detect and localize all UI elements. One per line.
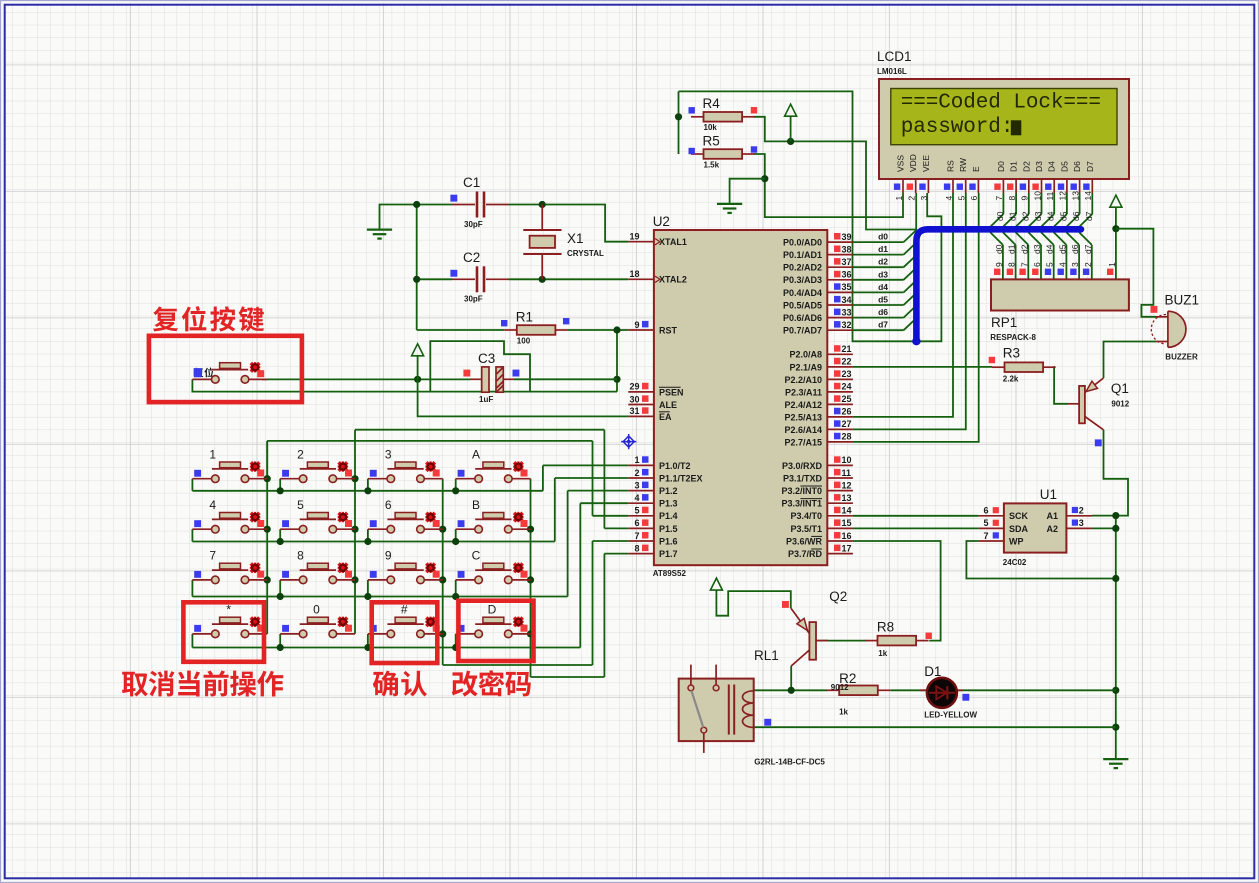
wire keypad column 1 net to P1.4 xyxy=(264,441,629,634)
wire +5V to BUZ1 top xyxy=(1116,229,1156,317)
svg-text:SDA: SDA xyxy=(1009,524,1029,534)
svg-text:RESPACK-8: RESPACK-8 xyxy=(990,333,1036,342)
svg-text:P1.6: P1.6 xyxy=(659,536,678,546)
resistor R2 xyxy=(827,671,891,717)
svg-text:9012: 9012 xyxy=(831,683,849,692)
svg-text:R1: R1 xyxy=(516,309,533,324)
power +5V terminal near R4 xyxy=(785,104,797,141)
svg-text:5: 5 xyxy=(957,196,967,201)
svg-text:9: 9 xyxy=(385,549,392,563)
svg-text:23: 23 xyxy=(842,369,852,379)
svg-text:100: 100 xyxy=(517,336,531,345)
svg-text:A: A xyxy=(472,447,480,461)
svg-text:D6: D6 xyxy=(1072,161,1082,172)
svg-text:D1: D1 xyxy=(1009,161,1019,172)
push button key 0 xyxy=(280,603,355,638)
svg-text:SCK: SCK xyxy=(1009,511,1029,521)
svg-text:P0.0/AD0: P0.0/AD0 xyxy=(783,238,822,248)
svg-text:P0.5/AD5: P0.5/AD5 xyxy=(783,300,822,310)
svg-text:P1.4: P1.4 xyxy=(659,511,678,521)
svg-text:P1.5: P1.5 xyxy=(659,524,678,534)
svg-text:RW: RW xyxy=(958,158,968,172)
wire reset button left terminal long run xyxy=(192,379,617,391)
svg-text:9: 9 xyxy=(994,262,1004,267)
svg-text:12: 12 xyxy=(842,480,852,490)
svg-text:14: 14 xyxy=(842,506,852,516)
capacitor C2 30pF xyxy=(450,250,508,304)
wire RST net vertical to C3 xyxy=(613,326,620,391)
svg-text:#: # xyxy=(401,603,408,617)
svg-text:d0: d0 xyxy=(995,211,1005,221)
crystal X1 xyxy=(523,205,604,280)
svg-text:36: 36 xyxy=(842,270,852,280)
svg-text:2: 2 xyxy=(634,468,639,478)
wire P2.6 to LCD RW xyxy=(853,193,966,429)
annotation box key * xyxy=(183,602,264,662)
RP1 pin numbers 9..2 and 1 xyxy=(994,262,1117,267)
svg-text:1k: 1k xyxy=(839,708,848,717)
ground symbol near C1 xyxy=(367,230,392,239)
push button key 6 xyxy=(368,498,443,533)
annotation text 复位按键 xyxy=(153,306,264,332)
annotation box key # xyxy=(372,602,438,663)
svg-text:d4: d4 xyxy=(1045,244,1055,254)
svg-text:2: 2 xyxy=(1083,262,1093,267)
wire R5 right to GND / LCD VSS xyxy=(754,154,903,217)
resistor R8 xyxy=(865,620,932,659)
svg-text:7: 7 xyxy=(209,549,216,563)
wire loop detour over C3 xyxy=(430,341,530,392)
svg-text:d2: d2 xyxy=(1019,244,1029,254)
svg-text:d3: d3 xyxy=(878,269,888,279)
net labels d0-d7 above bus xyxy=(995,211,1094,221)
wire P2.5 to LCD RS xyxy=(853,193,953,417)
svg-text:D3: D3 xyxy=(1034,161,1044,172)
svg-text:d3: d3 xyxy=(1032,244,1042,254)
svg-text:P2.0/A8: P2.0/A8 xyxy=(789,350,822,360)
svg-text:d0: d0 xyxy=(994,244,1004,254)
svg-text:16: 16 xyxy=(842,531,852,541)
svg-text:d1: d1 xyxy=(1008,211,1018,221)
annotation box reset button xyxy=(149,336,302,402)
svg-text:d5: d5 xyxy=(1057,244,1067,254)
svg-text:P2.3/A11: P2.3/A11 xyxy=(785,387,822,397)
LED D1 LED-YELLOW xyxy=(920,664,978,720)
svg-text:P0.3/AD3: P0.3/AD3 xyxy=(783,275,822,285)
svg-text:d0: d0 xyxy=(878,232,888,242)
svg-text:3: 3 xyxy=(1079,518,1084,528)
svg-text:P0.2/AD2: P0.2/AD2 xyxy=(783,263,822,273)
svg-text:d1: d1 xyxy=(1007,244,1017,254)
svg-text:21: 21 xyxy=(842,344,852,354)
svg-text:3: 3 xyxy=(385,447,392,461)
push button key # xyxy=(368,603,443,638)
svg-text:P1.2: P1.2 xyxy=(659,486,678,496)
svg-text:P3.3/INT1: P3.3/INT1 xyxy=(781,499,822,509)
svg-text:BUZ1: BUZ1 xyxy=(1165,293,1200,308)
svg-text:8: 8 xyxy=(1007,196,1017,201)
ground symbol below R5 xyxy=(717,204,742,213)
power +5V terminal above C3 xyxy=(412,344,424,380)
wire Q1 collector to ground rail xyxy=(1092,430,1128,516)
svg-text:D2: D2 xyxy=(1021,161,1031,172)
svg-text:d4: d4 xyxy=(878,282,888,292)
svg-text:38: 38 xyxy=(842,244,852,254)
wire P2.1 to R3 xyxy=(853,366,992,368)
svg-text:P2.6/A14: P2.6/A14 xyxy=(784,425,822,435)
wires bus to RP1 pins xyxy=(990,232,1092,278)
svg-text:7: 7 xyxy=(983,531,988,541)
net labels d0-d7 below bus xyxy=(994,244,1093,254)
svg-text:d5: d5 xyxy=(878,295,888,305)
wire P3.4 to U1 SCK xyxy=(853,515,979,517)
ground rail right side xyxy=(1112,512,1119,759)
svg-text:Q1: Q1 xyxy=(1111,381,1129,396)
wires keypad left terminal drops xyxy=(192,479,459,651)
annotation text 改密码 xyxy=(452,670,531,696)
svg-text:10: 10 xyxy=(842,455,852,465)
svg-text:D4: D4 xyxy=(1047,161,1057,172)
svg-text:15: 15 xyxy=(842,518,852,528)
svg-text:XTAL1: XTAL1 xyxy=(659,237,687,247)
svg-text:D1: D1 xyxy=(924,664,941,679)
svg-text:P2.5/A13: P2.5/A13 xyxy=(784,412,822,422)
svg-text:R4: R4 xyxy=(703,96,721,111)
svg-text:D: D xyxy=(488,603,497,617)
svg-text:31: 31 xyxy=(629,406,639,416)
LCD display LCD1 LM016L xyxy=(877,49,1129,201)
eeprom U1 24C02 xyxy=(979,487,1092,567)
push button reset (复位) xyxy=(192,362,267,383)
push button key B xyxy=(456,498,531,533)
svg-text:6: 6 xyxy=(1032,262,1042,267)
junction dots crystal nets xyxy=(413,201,546,283)
wire Q2 base to R8 xyxy=(817,640,866,642)
push button key 3 xyxy=(368,447,443,482)
push button key 5 xyxy=(280,498,355,533)
svg-text:5: 5 xyxy=(983,518,988,528)
push button key D xyxy=(456,603,531,638)
svg-text:4: 4 xyxy=(209,498,216,512)
svg-text:5: 5 xyxy=(634,506,639,516)
svg-text:39: 39 xyxy=(842,232,852,242)
svg-text:9: 9 xyxy=(1020,196,1030,201)
resistor R5 xyxy=(689,133,758,169)
svg-text:9: 9 xyxy=(634,320,639,330)
svg-text:8: 8 xyxy=(1007,262,1017,267)
svg-text:30pF: 30pF xyxy=(464,220,483,229)
svg-text:A1: A1 xyxy=(1046,511,1058,521)
svg-text:VSS: VSS xyxy=(896,155,906,172)
svg-text:P0.4/AD4: P0.4/AD4 xyxy=(783,288,822,298)
wire relay coil bottom to ground rail xyxy=(754,719,1116,727)
svg-text:PSEN: PSEN xyxy=(659,387,684,397)
wire R4 R5 left junction / VEE long net xyxy=(675,91,942,341)
svg-text:E: E xyxy=(971,166,981,172)
wire R2 to D1 xyxy=(890,689,927,691)
svg-text:U1: U1 xyxy=(1040,487,1057,502)
push button key A xyxy=(456,447,531,482)
svg-text:35: 35 xyxy=(842,282,852,292)
svg-text:Q2: Q2 xyxy=(829,589,847,604)
svg-text:d6: d6 xyxy=(1071,211,1081,221)
svg-text:7: 7 xyxy=(1019,262,1029,267)
svg-text:19: 19 xyxy=(629,232,639,242)
svg-text:0: 0 xyxy=(313,603,320,617)
svg-text:11: 11 xyxy=(842,468,852,478)
ground symbol bottom right xyxy=(1103,759,1128,768)
svg-text:P3.5/T1: P3.5/T1 xyxy=(790,524,822,534)
relay RL1 G2RL-14B-CF-DC5 xyxy=(679,648,826,767)
svg-text:6: 6 xyxy=(385,498,392,512)
svg-text:7: 7 xyxy=(634,531,639,541)
svg-text:4: 4 xyxy=(944,196,954,201)
power +5V terminal top right xyxy=(1110,195,1122,229)
svg-text:6: 6 xyxy=(634,518,639,528)
svg-text:C: C xyxy=(472,549,481,563)
wire C1 to XTAL1 pin19 xyxy=(417,205,629,242)
svg-text:P3.1/TXD: P3.1/TXD xyxy=(783,473,823,483)
svg-text:C1: C1 xyxy=(463,175,480,190)
svg-text:5: 5 xyxy=(1045,262,1055,267)
svg-text:24: 24 xyxy=(842,382,852,392)
svg-text:11: 11 xyxy=(1045,191,1055,200)
wire +5V to C3 row (reset button right terminal) xyxy=(262,376,617,383)
svg-text:P0.6/AD6: P0.6/AD6 xyxy=(783,313,822,323)
svg-text:6: 6 xyxy=(983,506,988,516)
power +5V terminal near Q2 xyxy=(710,578,790,616)
svg-text:2.2k: 2.2k xyxy=(1003,375,1019,384)
svg-text:WP: WP xyxy=(1009,536,1024,546)
svg-text:4: 4 xyxy=(634,493,639,503)
svg-text:P1.7: P1.7 xyxy=(659,549,678,559)
svg-text:P2.2/A10: P2.2/A10 xyxy=(784,375,822,385)
svg-text:RP1: RP1 xyxy=(991,315,1017,330)
svg-text:34: 34 xyxy=(842,295,852,305)
wire R1 to RST pin9 xyxy=(568,329,629,331)
svg-text:VEE: VEE xyxy=(921,155,931,172)
svg-text:5: 5 xyxy=(297,498,304,512)
svg-text:10: 10 xyxy=(1032,191,1042,201)
wire keypad column 3 net to P1.6 xyxy=(439,479,628,665)
push button key C xyxy=(456,549,531,584)
svg-text:R3: R3 xyxy=(1003,346,1020,361)
svg-text:R5: R5 xyxy=(703,133,720,148)
svg-text:2: 2 xyxy=(907,196,917,201)
svg-text:d6: d6 xyxy=(878,307,888,317)
svg-text:37: 37 xyxy=(842,257,852,267)
svg-text:RL1: RL1 xyxy=(754,648,779,663)
svg-text:8: 8 xyxy=(297,549,304,563)
svg-text:AT89S52: AT89S52 xyxy=(653,569,687,578)
svg-text:G2RL-14B-CF-DC5: G2RL-14B-CF-DC5 xyxy=(754,758,825,767)
svg-text:LM016L: LM016L xyxy=(877,67,907,76)
svg-text:13: 13 xyxy=(1070,191,1080,201)
svg-text:14: 14 xyxy=(1083,191,1093,201)
transistor Q2 9012 xyxy=(782,589,847,666)
resistor R4 xyxy=(689,96,758,132)
resistor R1 xyxy=(501,309,569,345)
wire keypad column 4 net to P1.7 xyxy=(527,479,628,677)
svg-text:P3.2/INT0: P3.2/INT0 xyxy=(781,486,822,496)
annotation box key D xyxy=(458,601,533,661)
svg-text:d1: d1 xyxy=(878,244,888,254)
svg-text:30pF: 30pF xyxy=(464,295,483,304)
svg-text:A2: A2 xyxy=(1046,524,1058,534)
svg-text:1uF: 1uF xyxy=(479,395,493,404)
svg-text:d6: d6 xyxy=(1070,244,1080,254)
svg-text:10k: 10k xyxy=(704,123,718,132)
wire U1 WP to ground rail xyxy=(966,541,1115,579)
push button key 4 xyxy=(192,498,267,533)
wire P3.6 to R8 xyxy=(853,541,941,641)
svg-text:===Coded Lock===: ===Coded Lock=== xyxy=(901,92,1101,115)
wire U1 A2 to ground rail xyxy=(1092,527,1116,529)
wire keypad column 2 net to P1.5 xyxy=(351,430,628,634)
svg-text:13: 13 xyxy=(842,493,852,503)
transistor Q1 9012 xyxy=(1068,378,1130,446)
bus P0 data (thick blue) xyxy=(916,229,1081,340)
wire ground branch of R5 xyxy=(730,179,765,204)
svg-text:RS: RS xyxy=(946,160,956,172)
wire ground net of C1 C2 (left vertical) xyxy=(380,205,505,331)
svg-text:d4: d4 xyxy=(1046,211,1056,221)
svg-text:3: 3 xyxy=(919,196,929,201)
wire EA pin31 to +5V net xyxy=(418,379,629,416)
push button key 7 xyxy=(192,549,267,584)
svg-text:d2: d2 xyxy=(878,257,888,267)
svg-text:2: 2 xyxy=(297,447,304,461)
svg-text:29: 29 xyxy=(629,382,639,392)
svg-text:BUZZER: BUZZER xyxy=(1165,353,1198,362)
svg-text:ALE: ALE xyxy=(659,400,677,410)
svg-text:D5: D5 xyxy=(1059,161,1069,172)
svg-text:R8: R8 xyxy=(877,620,894,635)
svg-text:CRYSTAL: CRYSTAL xyxy=(567,249,604,258)
svg-text:22: 22 xyxy=(842,357,852,367)
svg-text:1k: 1k xyxy=(878,649,887,658)
resistor R3 xyxy=(989,346,1056,384)
svg-text:P3.0/RXD: P3.0/RXD xyxy=(782,461,823,471)
svg-text:RST: RST xyxy=(659,325,678,335)
wire Q2 collector to relay and R2 xyxy=(754,666,827,694)
svg-text:d7: d7 xyxy=(1084,211,1094,221)
svg-text:D7: D7 xyxy=(1085,161,1095,172)
push button key 8 xyxy=(280,549,355,584)
RP1 pin state squares xyxy=(994,269,1113,275)
svg-text:18: 18 xyxy=(629,269,639,279)
svg-text:LCD1: LCD1 xyxy=(877,49,912,64)
svg-text:28: 28 xyxy=(842,432,852,442)
svg-text:P3.4/T0: P3.4/T0 xyxy=(790,511,822,521)
push button key 9 xyxy=(368,549,443,584)
resistor pack RP1 RESPACK-8 xyxy=(990,279,1129,342)
svg-text:32: 32 xyxy=(842,320,852,330)
wires keypad row nets to P1.0-P1.3 xyxy=(192,465,628,647)
svg-text:XTAL2: XTAL2 xyxy=(659,275,687,285)
svg-text:d7: d7 xyxy=(878,320,888,330)
wire P2.7 to LCD E xyxy=(853,193,979,442)
svg-text:P1.1/T2EX: P1.1/T2EX xyxy=(659,473,703,483)
microcontroller U2 AT89S52 xyxy=(628,214,853,578)
svg-text:30: 30 xyxy=(629,394,639,404)
svg-text:d5: d5 xyxy=(1058,211,1068,221)
push button key 2 xyxy=(280,447,355,482)
svg-text:7: 7 xyxy=(994,196,1004,201)
wires net d0-d7 from U2 P0 to bus xyxy=(853,230,917,330)
wire D1 cathode to ground rail xyxy=(957,689,1116,691)
annotation text 取消当前操作 xyxy=(122,671,283,697)
svg-text:P1.0/T2: P1.0/T2 xyxy=(659,461,691,471)
svg-text:4: 4 xyxy=(1057,262,1067,267)
push button key 1 xyxy=(192,447,267,482)
svg-text:6: 6 xyxy=(969,196,979,201)
svg-text:P3.7/RD: P3.7/RD xyxy=(788,549,823,559)
net labels d0-d7 at U2 P0 xyxy=(878,232,888,330)
svg-text:33: 33 xyxy=(842,307,852,317)
svg-text:P2.1/A9: P2.1/A9 xyxy=(789,362,822,372)
svg-text:U2: U2 xyxy=(653,214,670,229)
sheet origin marker xyxy=(621,434,636,449)
svg-text:P2.4/A12: P2.4/A12 xyxy=(784,400,822,410)
buzzer BUZ1 xyxy=(1151,293,1200,362)
svg-text:P2.7/A15: P2.7/A15 xyxy=(784,437,822,447)
push button key * xyxy=(192,603,267,638)
svg-text:P0.1/AD1: P0.1/AD1 xyxy=(783,250,822,260)
svg-text:3: 3 xyxy=(1070,262,1080,267)
svg-text:C3: C3 xyxy=(478,351,495,366)
svg-text:1.5k: 1.5k xyxy=(704,160,720,169)
svg-text:12: 12 xyxy=(1058,191,1068,201)
wire +5V to RP1 pin1 xyxy=(1112,225,1119,279)
svg-text:P0.7/AD7: P0.7/AD7 xyxy=(783,326,822,336)
svg-text:B: B xyxy=(472,498,480,512)
svg-text:D0: D0 xyxy=(996,161,1006,172)
svg-text:X1: X1 xyxy=(567,231,584,246)
svg-text:25: 25 xyxy=(842,394,852,404)
svg-text:EA: EA xyxy=(659,412,672,422)
svg-text:d2: d2 xyxy=(1020,211,1030,221)
svg-text:password:: password: xyxy=(901,116,1014,139)
wire C2 to XTAL2 pin18 xyxy=(417,278,629,280)
svg-text:P3.6/WR: P3.6/WR xyxy=(786,536,823,546)
wires LCD D0-D7 into bus xyxy=(991,193,1093,226)
svg-text:LED-YELLOW: LED-YELLOW xyxy=(924,711,977,720)
svg-text:27: 27 xyxy=(842,419,852,429)
wire R3 to Q1 base xyxy=(1054,367,1069,404)
svg-text:8: 8 xyxy=(634,543,639,553)
svg-text:P1.3: P1.3 xyxy=(659,499,678,509)
svg-text:26: 26 xyxy=(842,407,852,417)
annotation text 确认 xyxy=(373,671,427,697)
svg-text:9012: 9012 xyxy=(1111,400,1129,409)
capacitor C3 1uF xyxy=(463,351,519,404)
svg-text:24C02: 24C02 xyxy=(1003,558,1027,567)
svg-text:2: 2 xyxy=(1079,506,1084,516)
svg-text:VDD: VDD xyxy=(908,154,918,172)
svg-text:d3: d3 xyxy=(1033,211,1043,221)
svg-text:1: 1 xyxy=(634,455,639,465)
svg-text:1: 1 xyxy=(894,196,904,201)
value label 9012 of Q2 xyxy=(831,683,849,692)
svg-text:17: 17 xyxy=(842,543,852,553)
wire P3.5 to U1 SDA xyxy=(853,527,979,529)
svg-text:d7: d7 xyxy=(1083,244,1093,254)
svg-text:3: 3 xyxy=(634,480,639,490)
wire BUZ1 bottom to Q1 emitter xyxy=(1104,342,1157,379)
wire R4 right to +5V / LCD VDD xyxy=(754,117,917,230)
capacitor C1 30pF xyxy=(450,175,508,229)
